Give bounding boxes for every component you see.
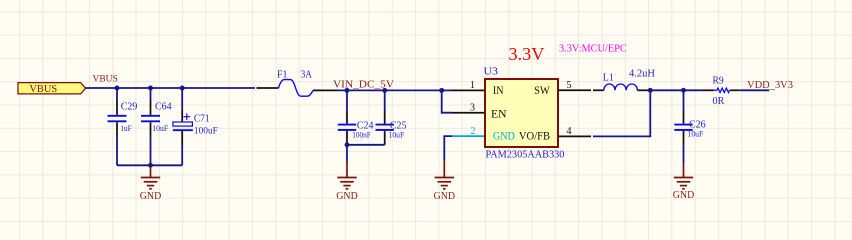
svg-text:VDD_3V3: VDD_3V3 bbox=[747, 79, 793, 91]
wire VIN rail bbox=[338, 89, 442, 91]
svg-text:VBUS: VBUS bbox=[29, 84, 57, 95]
svg-text:VO/FB: VO/FB bbox=[519, 131, 550, 143]
ground GND3 bbox=[434, 161, 456, 202]
IC U3 pin 4 VO/FB bbox=[558, 135, 591, 137]
wire pin2 to GND3 bbox=[444, 136, 452, 161]
junction at GND left bbox=[148, 163, 153, 168]
wire feedback bbox=[593, 90, 650, 136]
svg-text:SW: SW bbox=[534, 85, 550, 97]
svg-text:5: 5 bbox=[567, 80, 572, 91]
svg-text:GND: GND bbox=[673, 190, 695, 201]
junction at C25 bbox=[382, 88, 387, 93]
svg-text:PAM2305AAB330: PAM2305AAB330 bbox=[486, 150, 565, 161]
svg-text:100nF: 100nF bbox=[352, 130, 371, 140]
IC U3 pin 1 IN wire bbox=[442, 89, 452, 91]
svg-text:EN: EN bbox=[491, 109, 507, 121]
junction at C26 bbox=[681, 88, 686, 93]
svg-text:C71: C71 bbox=[194, 113, 210, 124]
wire VDD_3V3 bbox=[739, 89, 769, 91]
svg-text:F1: F1 bbox=[277, 70, 288, 81]
svg-text:R9: R9 bbox=[713, 75, 724, 86]
capacitor C29 bbox=[108, 88, 138, 165]
svg-text:10uF: 10uF bbox=[152, 123, 168, 133]
svg-text:4: 4 bbox=[567, 126, 572, 137]
svg-text:C64: C64 bbox=[155, 101, 172, 112]
svg-text:GND: GND bbox=[434, 191, 456, 202]
junction at C24 bbox=[345, 88, 350, 93]
svg-text:3A: 3A bbox=[301, 70, 313, 81]
svg-text:IN: IN bbox=[493, 85, 504, 97]
IC U3 pin 1 IN bbox=[452, 89, 485, 91]
svg-text:3: 3 bbox=[470, 102, 475, 113]
svg-text:GND: GND bbox=[493, 131, 515, 143]
svg-text:3.3V: 3.3V bbox=[509, 44, 545, 64]
resistor R9 bbox=[701, 75, 739, 107]
port VBUS bbox=[18, 83, 86, 95]
svg-text:U3: U3 bbox=[484, 67, 499, 78]
op-amp U3 body bbox=[484, 67, 565, 161]
wire VBUS rail bbox=[85, 87, 255, 89]
junction at feedback bbox=[648, 88, 653, 93]
junction at C71 bbox=[180, 86, 185, 91]
ground GND2 bbox=[336, 162, 358, 203]
IC U3 pin 2 GND (cyan) bbox=[452, 135, 485, 137]
svg-text:C29: C29 bbox=[121, 101, 138, 112]
svg-text:2: 2 bbox=[471, 126, 476, 137]
capacitor C64 bbox=[141, 88, 172, 165]
IC U3 pin 5 SW bbox=[558, 89, 591, 91]
svg-text:GND: GND bbox=[336, 191, 358, 202]
svg-text:0R: 0R bbox=[713, 96, 725, 107]
ground GND4 bbox=[673, 164, 695, 202]
capacitor C26 bbox=[674, 90, 705, 163]
wire EN drop bbox=[442, 90, 452, 112]
svg-text:VBUS: VBUS bbox=[93, 73, 118, 84]
capacitor C25 bbox=[376, 90, 407, 144]
svg-text:1uF: 1uF bbox=[120, 123, 131, 133]
svg-text:3.3V:MCU/EPC: 3.3V:MCU/EPC bbox=[559, 44, 627, 55]
fuse F1 bbox=[257, 70, 339, 97]
svg-text:1: 1 bbox=[470, 80, 475, 91]
wire SW rail bbox=[649, 89, 701, 91]
junction at C64 bbox=[148, 86, 153, 91]
svg-text:100uF: 100uF bbox=[194, 126, 218, 136]
svg-text:4.2uH: 4.2uH bbox=[629, 69, 655, 80]
capacitor C24 bbox=[338, 90, 374, 144]
junction at C29 bbox=[115, 86, 120, 91]
wire bottom rail left group bbox=[117, 164, 182, 166]
capacitor C71 (polarized) bbox=[173, 88, 218, 165]
svg-text:10uF: 10uF bbox=[688, 128, 704, 138]
junction at EN drop bbox=[439, 88, 444, 93]
junction at GND2 bbox=[345, 142, 350, 147]
wire GND2 drop bbox=[346, 145, 348, 162]
svg-text:10uF: 10uF bbox=[389, 130, 405, 140]
svg-text:L1: L1 bbox=[603, 72, 614, 83]
ground GND1 bbox=[140, 165, 162, 202]
wire bottom rail C24-C25 bbox=[347, 144, 385, 146]
IC U3 pin 3 EN bbox=[452, 112, 485, 114]
inductor L1 bbox=[593, 69, 655, 91]
svg-text:GND: GND bbox=[140, 191, 162, 202]
